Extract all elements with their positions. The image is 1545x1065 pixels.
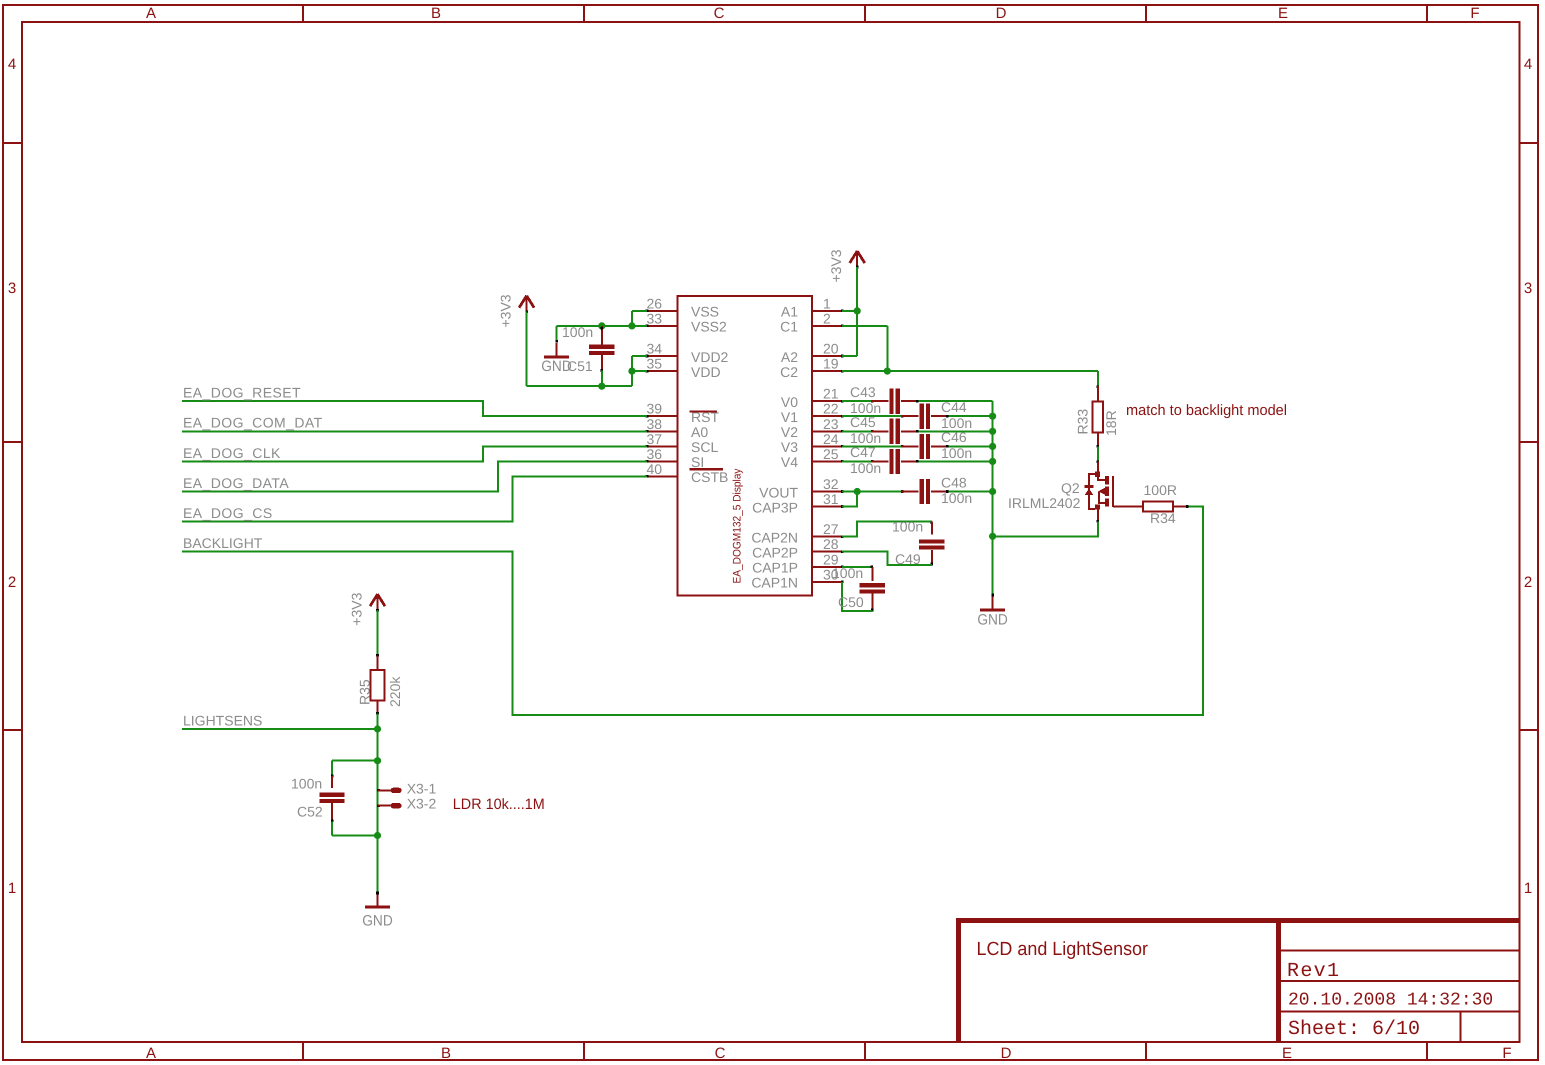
junction bus node	[989, 428, 996, 435]
wire VDD rail up to pin35	[631, 356, 633, 386]
C50 value 100n	[832, 565, 863, 581]
svg-text:Q2: Q2	[1061, 480, 1080, 496]
junction bus node	[989, 413, 996, 420]
pin name SCL	[691, 439, 718, 455]
wire +3V3 down to VDD rail	[526, 312, 528, 387]
wire C1 down to C2 row	[886, 326, 888, 371]
svg-text:C45: C45	[850, 414, 876, 430]
svg-text:VSS: VSS	[691, 304, 719, 320]
svg-text:21: 21	[823, 386, 839, 402]
net label BACKLIGHT	[183, 535, 263, 551]
wire R33 to Q2 drain	[1097, 446, 1099, 461]
pin number 34	[647, 341, 663, 357]
svg-text:C: C	[715, 1045, 726, 1062]
svg-text:C51: C51	[567, 358, 593, 374]
wire VSS rail horizontal	[557, 325, 647, 327]
pin name SI	[691, 454, 704, 470]
svg-text:4: 4	[8, 56, 16, 73]
U1 pin 35 VDD stub	[646, 370, 678, 373]
svg-text:X3-1: X3-1	[407, 780, 437, 796]
pin number 35	[647, 356, 663, 372]
pin number 28	[823, 536, 839, 552]
svg-text:C46: C46	[941, 429, 967, 445]
capacitor C47	[842, 449, 993, 474]
svg-text:1: 1	[823, 295, 831, 311]
pin name C1	[780, 319, 798, 335]
svg-text:38: 38	[647, 416, 663, 432]
pin number 30	[823, 566, 839, 582]
svg-text:B: B	[441, 1045, 451, 1062]
capacitor C44	[842, 404, 993, 429]
+3V3 label (light sensor)	[349, 592, 365, 625]
pin name C2	[780, 364, 798, 380]
svg-text:C2: C2	[780, 364, 798, 380]
svg-text:Rev1: Rev1	[1287, 960, 1339, 983]
wire C2 down to R33	[1097, 371, 1099, 386]
pin name V1	[781, 409, 798, 425]
svg-text:100n: 100n	[941, 490, 972, 506]
wire sensor top to C52	[332, 760, 377, 762]
U1 pin 34 VDD2 stub	[646, 355, 678, 358]
U1 pin 24 V3 stub	[812, 445, 843, 448]
svg-text:A0: A0	[691, 424, 708, 440]
pin name A1	[781, 304, 798, 320]
+3V3 supply symbol (light sensor)	[370, 594, 385, 611]
svg-text:20: 20	[823, 341, 839, 357]
U1 pin 28 CAP2P stub	[812, 550, 843, 553]
svg-text:X3-2: X3-2	[407, 796, 437, 812]
svg-text:CAP1P: CAP1P	[752, 560, 798, 576]
U1 pin 38 A0 stub	[646, 430, 678, 433]
wire Q2 source to bus	[993, 522, 1098, 537]
wire LIGHTSENS down to sensor top	[377, 729, 379, 761]
wire to pin 20	[842, 355, 857, 357]
wire to pin 35	[632, 370, 647, 372]
wire +3V3 to R35	[377, 610, 379, 655]
junction pin33 rail	[628, 322, 635, 329]
svg-text:C47: C47	[850, 444, 876, 460]
capacitor C51	[589, 326, 614, 386]
pin number 24	[823, 431, 839, 447]
svg-text:Sheet: 6/10: Sheet: 6/10	[1288, 1018, 1420, 1041]
transistor Q2 IRLML2402	[1085, 461, 1113, 523]
svg-text:18R: 18R	[1103, 410, 1119, 436]
wire VOUT to C48	[842, 491, 901, 493]
R33 name label	[1075, 409, 1091, 435]
pin number 1	[823, 295, 831, 311]
U1 pin 36 SI stub	[646, 460, 678, 463]
junction sensor bottom node	[374, 832, 381, 839]
resistor R34	[1113, 502, 1189, 512]
C51 name label	[567, 358, 593, 374]
svg-text:VDD2: VDD2	[691, 349, 729, 365]
svg-text:35: 35	[647, 356, 663, 372]
C52 value 100n	[291, 776, 322, 792]
svg-text:26: 26	[647, 295, 663, 311]
junction C51 top	[598, 322, 605, 329]
wire CAP3P up to VOUT	[842, 492, 857, 507]
pin name VOUT	[759, 484, 798, 500]
svg-text:100n: 100n	[941, 445, 972, 461]
svg-text:3: 3	[1524, 280, 1532, 297]
net label EA_DOG_COM_DAT	[183, 415, 323, 431]
junction bus node	[989, 488, 996, 495]
svg-text:C52: C52	[297, 804, 323, 820]
wire net EA_DOG_COM_DAT	[182, 430, 647, 432]
title block date 20.10.2008 14:32:30	[1288, 991, 1493, 1011]
pin name V0	[781, 394, 798, 410]
svg-text:CAP2P: CAP2P	[752, 545, 798, 561]
R33 value 18R	[1103, 410, 1119, 436]
svg-text:2: 2	[1524, 574, 1532, 591]
C43 value 100n	[850, 400, 881, 416]
svg-text:BACKLIGHT: BACKLIGHT	[183, 535, 263, 551]
Q2 name label	[1061, 480, 1080, 496]
junction bus node	[989, 443, 996, 450]
svg-text:100n: 100n	[562, 324, 593, 340]
svg-text:33: 33	[647, 310, 663, 326]
svg-text:R33: R33	[1075, 409, 1091, 435]
wire GND bus vertical	[992, 401, 994, 595]
pin number 25	[823, 446, 839, 462]
net label EA_DOG_CLK	[183, 445, 281, 461]
svg-text:SI: SI	[691, 454, 704, 470]
svg-text:40: 40	[647, 461, 663, 477]
pin name RST	[691, 409, 719, 425]
wire pin2 C1 right	[842, 325, 887, 327]
junction pin35 rail	[628, 368, 635, 375]
U1 pin 30 CAP1N stub	[812, 581, 843, 584]
C47 name label	[850, 444, 876, 460]
capacitor C46	[842, 434, 993, 459]
svg-text:VDD: VDD	[691, 364, 721, 380]
U1 pin 39 RST stub	[646, 415, 678, 418]
svg-text:VSS2: VSS2	[691, 319, 727, 335]
wire VSS rail up to pin26	[631, 311, 633, 326]
note match to backlight model	[1126, 402, 1287, 419]
pin number 29	[823, 551, 839, 567]
pin number 22	[823, 401, 839, 417]
U1 pin 31 CAP3P stub	[812, 505, 843, 508]
svg-text:37: 37	[647, 431, 663, 447]
+3V3 label (above U1)	[828, 249, 844, 282]
svg-text:C48: C48	[941, 474, 967, 490]
svg-text:100n: 100n	[892, 519, 923, 535]
U1 pin 1 A1 stub	[812, 310, 843, 313]
U1 pin 27 CAP2N stub	[812, 535, 843, 538]
U1 vertical label EA_DOGM132_5 Display	[732, 468, 744, 583]
C44 name label	[941, 399, 967, 415]
U1 pin 37 SCL stub	[646, 445, 678, 448]
svg-text:3: 3	[8, 280, 16, 297]
pin number 26	[647, 295, 663, 311]
net label LIGHTSENS	[183, 712, 262, 728]
R35 value 220k	[387, 676, 403, 707]
svg-text:GND: GND	[362, 913, 393, 930]
C45 value 100n	[850, 430, 881, 446]
pin number 36	[647, 446, 663, 462]
pin name CAP2N	[751, 529, 798, 545]
pin name VSS2	[691, 319, 727, 335]
pin name CAP3P	[752, 499, 798, 515]
wire sensor vertical	[377, 761, 379, 836]
C46 name label	[941, 429, 967, 445]
op-amp U1 EA_DOGM132_5 display module body	[677, 296, 812, 596]
wire C49 bottom to CAP2P	[842, 552, 932, 565]
svg-text:34: 34	[647, 341, 663, 357]
+3V3 label (upper left)	[498, 294, 514, 327]
pin number 2	[823, 310, 831, 326]
capacitor C48	[901, 479, 993, 504]
ground symbol GND (bus)	[980, 594, 1005, 610]
wire CAP1P to C50 top	[842, 566, 872, 568]
C49 name label	[895, 551, 921, 567]
capacitor C50	[860, 566, 885, 612]
wire net EA_DOG_CLK	[182, 446, 647, 461]
svg-text:31: 31	[823, 491, 839, 507]
U1 pin 40 CSTB stub	[646, 475, 678, 478]
C49 value 100n	[892, 519, 923, 535]
U1 pin 20 A2 stub	[812, 355, 843, 358]
svg-text:C49: C49	[895, 551, 921, 567]
RST overline	[690, 410, 718, 412]
svg-text:39: 39	[647, 401, 663, 417]
pin name VSS	[691, 304, 719, 320]
svg-text:VOUT: VOUT	[759, 484, 798, 500]
svg-text:EA_DOGM132_5 Display: EA_DOGM132_5 Display	[732, 468, 744, 583]
svg-text:V4: V4	[781, 454, 798, 470]
X3-2 label	[407, 796, 437, 812]
title block Sheet: 6/10	[1288, 1018, 1420, 1041]
C45 name label	[850, 414, 876, 430]
junction bus source node	[989, 533, 996, 540]
svg-text:1: 1	[1524, 880, 1532, 897]
wire net LIGHTSENS	[182, 728, 378, 730]
R35 name label	[356, 679, 372, 705]
U1 pin 2 C1 stub	[812, 325, 843, 328]
C44 value 100n	[941, 415, 972, 431]
C43 name label	[850, 384, 876, 400]
wire VDD rail horizontal	[527, 385, 632, 387]
ground symbol GND (light sensor)	[365, 892, 390, 907]
junction C51 bottom	[598, 383, 605, 390]
svg-text:A1: A1	[781, 304, 798, 320]
pin number 33	[647, 310, 663, 326]
X3-1 label	[407, 780, 437, 796]
U1 pin 29 CAP1P stub	[812, 566, 843, 569]
pin number 31	[823, 491, 839, 507]
wire net BACKLIGHT	[182, 507, 1203, 716]
svg-text:CSTB: CSTB	[691, 469, 728, 485]
pin name VDD	[691, 364, 721, 380]
wire junction down to pin20	[856, 311, 858, 356]
U1 pin 26 VSS stub	[646, 310, 678, 313]
svg-text:20.10.2008 14:32:30: 20.10.2008 14:32:30	[1288, 991, 1493, 1011]
svg-text:28: 28	[823, 536, 839, 552]
svg-text:A: A	[146, 5, 156, 22]
wire CAP2N to C49 top	[842, 522, 932, 537]
wire GND stub drop	[556, 326, 558, 341]
wire C52 bottom to sensor bottom	[332, 835, 377, 837]
U1 pin 21 V0 stub	[812, 400, 843, 403]
svg-text:+3V3: +3V3	[498, 294, 514, 327]
wire to pin 26	[632, 310, 647, 312]
svg-text:A: A	[146, 1045, 156, 1062]
pin number 19	[823, 356, 839, 372]
junction C2 node	[884, 368, 891, 375]
connector pin X3-1	[377, 788, 401, 793]
C51 value 100n	[562, 324, 593, 340]
svg-text:R35: R35	[356, 679, 372, 705]
svg-text:LDR 10k....1M: LDR 10k....1M	[453, 796, 545, 813]
svg-text:IRLML2402: IRLML2402	[1008, 495, 1081, 511]
wire pin1 to junction	[842, 310, 857, 312]
R34 name label	[1150, 510, 1176, 526]
svg-text:100n: 100n	[291, 776, 322, 792]
svg-text:100R: 100R	[1144, 482, 1177, 498]
pin number 38	[647, 416, 663, 432]
svg-text:+3V3: +3V3	[349, 592, 365, 625]
title block	[956, 918, 1520, 1042]
svg-text:GND: GND	[977, 612, 1008, 629]
pin number 21	[823, 386, 839, 402]
net label EA_DOG_CS	[183, 505, 272, 521]
svg-text:22: 22	[823, 401, 839, 417]
junction A1 node	[854, 307, 861, 314]
U1 pin 33 VSS2 stub	[646, 325, 678, 328]
wire sensor bottom to GND	[377, 836, 379, 894]
wire R35 to LIGHTSENS node	[377, 713, 379, 729]
svg-text:EA_DOG_CS: EA_DOG_CS	[183, 505, 272, 521]
pin number 39	[647, 401, 663, 417]
pin name CAP2P	[752, 545, 798, 561]
svg-text:SCL: SCL	[691, 439, 718, 455]
svg-text:220k: 220k	[387, 676, 403, 707]
svg-text:V2: V2	[781, 424, 798, 440]
svg-text:EA_DOG_RESET: EA_DOG_RESET	[183, 385, 301, 401]
svg-text:19: 19	[823, 356, 839, 372]
svg-text:100n: 100n	[850, 460, 881, 476]
capacitor C49	[919, 521, 944, 565]
note LDR 10k....1M	[453, 796, 545, 813]
svg-text:25: 25	[823, 446, 839, 462]
C46 value 100n	[941, 445, 972, 461]
R34 value 100R	[1144, 482, 1177, 498]
CSTB overline	[690, 468, 724, 470]
junction sensor top node	[374, 757, 381, 764]
svg-text:100n: 100n	[832, 565, 863, 581]
connector pin X3-2	[377, 803, 401, 808]
Q2 value IRLML2402	[1008, 495, 1081, 511]
capacitor C52	[320, 761, 345, 836]
C48 value 100n	[941, 490, 972, 506]
svg-text:V0: V0	[781, 394, 798, 410]
svg-text:V3: V3	[781, 439, 798, 455]
resistor R33	[1093, 385, 1103, 447]
svg-text:C44: C44	[941, 399, 967, 415]
wire net EA_DOG_DATA	[182, 461, 647, 491]
pin number 37	[647, 431, 663, 447]
pin name V2	[781, 424, 798, 440]
wire +3V3 down to pin1	[856, 267, 858, 311]
U1 pin 19 C2 stub	[812, 370, 843, 373]
wire net EA_DOG_CS	[182, 476, 647, 521]
U1 pin 23 V2 stub	[812, 430, 843, 433]
pin name V4	[781, 454, 798, 470]
svg-text:EA_DOG_COM_DAT: EA_DOG_COM_DAT	[183, 415, 323, 431]
svg-text:E: E	[1282, 1045, 1292, 1062]
junction LIGHTSENS node	[374, 725, 381, 732]
pin name VDD2	[691, 349, 729, 365]
svg-text:A2: A2	[781, 349, 798, 365]
svg-text:23: 23	[823, 416, 839, 432]
svg-text:C1: C1	[780, 319, 798, 335]
pin number 23	[823, 416, 839, 432]
svg-text:B: B	[431, 5, 441, 22]
svg-text:+3V3: +3V3	[828, 249, 844, 282]
net label EA_DOG_DATA	[183, 475, 289, 491]
resistor R35	[370, 654, 384, 715]
svg-text:24: 24	[823, 431, 839, 447]
wire CAP1N to C50 bottom	[842, 582, 872, 611]
C47 value 100n	[850, 460, 881, 476]
svg-text:2: 2	[8, 574, 16, 591]
capacitor C45	[842, 419, 993, 444]
pin name CAP1N	[751, 575, 798, 591]
wire to pin 34	[632, 355, 647, 357]
svg-text:F: F	[1470, 5, 1479, 22]
C52 name label	[297, 804, 323, 820]
svg-text:C: C	[714, 5, 725, 22]
pin number 27	[823, 521, 839, 537]
U1 pin 32 VOUT stub	[812, 490, 843, 493]
GND label (bus)	[977, 612, 1008, 629]
svg-text:F: F	[1502, 1045, 1511, 1062]
svg-text:R34: R34	[1150, 510, 1176, 526]
U1 pin 22 V1 stub	[812, 415, 843, 418]
capacitor C43	[842, 389, 993, 414]
+3V3 supply symbol (upper left)	[519, 296, 534, 313]
svg-text:1: 1	[8, 880, 16, 897]
svg-text:27: 27	[823, 521, 839, 537]
pin number 20	[823, 341, 839, 357]
junction VOUT node	[854, 488, 861, 495]
GND label (light sensor)	[362, 913, 393, 930]
C50 name label	[838, 594, 864, 610]
svg-text:CAP3P: CAP3P	[752, 499, 798, 515]
svg-text:36: 36	[647, 446, 663, 462]
title block Rev1	[1287, 960, 1339, 983]
pin number 40	[647, 461, 663, 477]
svg-text:E: E	[1278, 5, 1288, 22]
svg-text:V1: V1	[781, 409, 798, 425]
svg-text:EA_DOG_CLK: EA_DOG_CLK	[183, 445, 281, 461]
svg-text:CAP1N: CAP1N	[751, 575, 798, 591]
svg-text:4: 4	[1524, 56, 1532, 73]
ground symbol GND (near C51)	[544, 340, 569, 357]
pin name CSTB	[691, 469, 728, 485]
svg-text:C43: C43	[850, 384, 876, 400]
svg-text:2: 2	[823, 310, 831, 326]
svg-text:LIGHTSENS: LIGHTSENS	[183, 712, 262, 728]
pin name A2	[781, 349, 798, 365]
GND label (near C51)	[541, 358, 572, 375]
junction bus node	[989, 458, 996, 465]
U1 pin 25 V4 stub	[812, 460, 843, 463]
wire net EA_DOG_RESET	[182, 401, 647, 416]
net label EA_DOG_RESET	[183, 385, 301, 401]
svg-text:32: 32	[823, 476, 839, 492]
